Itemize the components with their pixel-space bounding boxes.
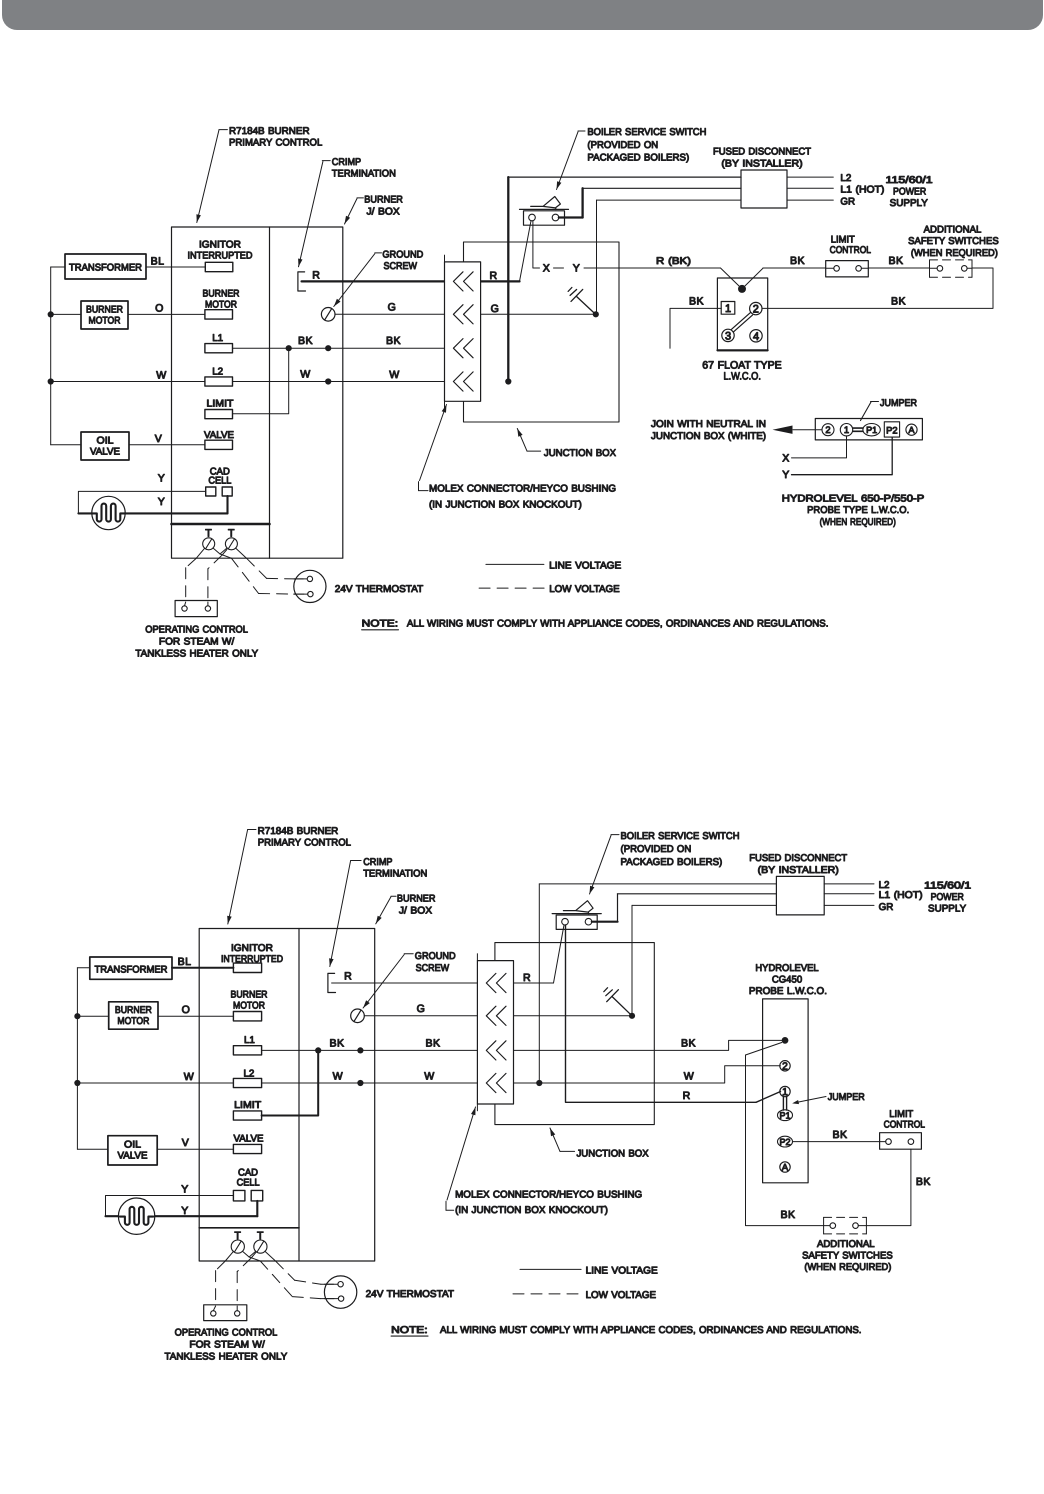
svg-text:L2: L2 [243, 1068, 254, 1079]
terminal CAD CELL (2) [233, 1168, 262, 1201]
terminal L1 (2) [233, 1035, 261, 1055]
label FUSED DISCONNECT (BY INSTALLER) (2) [749, 853, 847, 876]
ground symbol [568, 287, 596, 315]
svg-text:GR: GR [879, 902, 894, 913]
svg-text:Y: Y [782, 469, 789, 481]
svg-text:R: R [312, 269, 320, 281]
label JUNCTION BOX [517, 429, 616, 460]
svg-text:LOW VOLTAGE: LOW VOLTAGE [586, 1290, 657, 1301]
terminal IGNITOR INTERRUPTED [188, 239, 253, 271]
svg-text:P1: P1 [866, 425, 877, 435]
svg-text:CELL: CELL [208, 475, 232, 486]
crimp termination bracket [298, 272, 306, 291]
wire switch to R [520, 221, 532, 282]
svg-text:LIMIT: LIMIT [234, 1100, 261, 1111]
svg-text:X: X [782, 452, 789, 464]
svg-text:P2: P2 [779, 1137, 790, 1147]
wire BL transformer to ignitor (2) [172, 956, 233, 968]
svg-text:R: R [523, 972, 531, 984]
wire W rail to L2 (2) [77, 1071, 233, 1083]
svg-text:A: A [782, 1163, 789, 1174]
terminal L1 [205, 333, 233, 353]
svg-text:BURNER: BURNER [231, 990, 268, 1001]
svg-text:BURNER: BURNER [364, 195, 403, 206]
650-P terminal A [906, 424, 917, 435]
svg-text:CELL: CELL [237, 1177, 261, 1188]
svg-text:L.W.C.O.: L.W.C.O. [723, 371, 761, 383]
label BURNER J/ BOX [345, 195, 403, 225]
wires L2 L1 GR to 115/60/1 power supply [787, 173, 933, 209]
svg-text:(BY INSTALLER): (BY INSTALLER) [758, 865, 839, 876]
svg-text:MOLEX CONNECTOR/HEYCO BUSHING: MOLEX CONNECTOR/HEYCO BUSHING [429, 484, 616, 495]
svg-text:TERMINATION: TERMINATION [332, 169, 396, 180]
wire Y to 650-P terminal P2 [782, 437, 892, 481]
svg-text:BL: BL [178, 956, 192, 968]
label HYDROLEVEL CG450 PROBE L.W.C.O. [749, 963, 827, 997]
burner motor M1 [81, 301, 128, 329]
ground symbol (2) [604, 988, 632, 1016]
terminals T-T (2) [231, 1230, 267, 1253]
svg-text:A: A [908, 425, 914, 435]
svg-text:MOTOR: MOTOR [205, 299, 237, 310]
svg-text:O: O [155, 302, 164, 314]
svg-text:POWER: POWER [893, 187, 926, 198]
wire L1 hot switch to fused disconnect [559, 188, 741, 217]
oil valve V1 [81, 432, 129, 460]
junction box JB2 [495, 943, 654, 1125]
wire left rail with junctions (2) [74, 968, 90, 1149]
wire BK junction box to LWCO terminal 1 [670, 296, 721, 349]
wire W L2 to junction box [233, 369, 445, 385]
svg-text:X: X [543, 263, 550, 275]
svg-text:SUPPLY: SUPPLY [890, 198, 929, 209]
wire Y cad cell lower [78, 496, 227, 514]
LWCO terminal 2 [750, 302, 762, 315]
wire R crimp to service switch (line voltage) [302, 269, 520, 282]
ground screw GS1 [321, 308, 335, 322]
svg-text:L2: L2 [840, 173, 851, 184]
U1 thick terminal-strip line [172, 523, 270, 526]
terminal LIMIT [205, 399, 234, 419]
wire BK L1 to junction box (2) [262, 1037, 478, 1053]
hydrolevel 650-P terminal strip [815, 419, 922, 440]
svg-text:(IN JUNCTION BOX KNOCKOUT): (IN JUNCTION BOX KNOCKOUT) [429, 499, 582, 510]
svg-text:BK: BK [330, 1037, 345, 1049]
wire rail to oil valve (2) [77, 1148, 108, 1150]
svg-text:JUNCTION BOX (WHITE): JUNCTION BOX (WHITE) [651, 431, 766, 442]
terminal BURNER MOTOR [203, 288, 240, 319]
svg-text:CONTROL: CONTROL [830, 245, 872, 256]
LWCO float lever 3-2 [732, 313, 753, 332]
svg-text:J/ BOX: J/ BOX [399, 905, 433, 916]
CG450 terminal A [780, 1162, 790, 1174]
transformer TR2 [90, 957, 172, 979]
svg-text:IGNITOR: IGNITOR [231, 943, 273, 954]
wire to thermostat lower (2) [249, 1257, 334, 1299]
svg-text:INTERRUPTED: INTERRUPTED [188, 251, 253, 262]
wire to thermostat lower (low voltage) [231, 558, 304, 594]
label FUSED DISCONNECT (BY INSTALLER) [713, 146, 811, 169]
wire Y cad cell upper (2) [106, 1184, 234, 1217]
svg-text:67 FLOAT TYPE: 67 FLOAT TYPE [702, 359, 781, 371]
burner motor M2 [109, 1002, 158, 1029]
wire left rail with junctions [48, 267, 65, 445]
svg-text:ADDITIONAL: ADDITIONAL [817, 1239, 875, 1250]
wire L2 neutral white to fused disconnect [505, 177, 741, 385]
label LIMIT CONTROL (2) [884, 1109, 926, 1130]
label BURNER J/ BOX (2) [376, 894, 436, 924]
LWCO terminal 4 [750, 330, 762, 343]
svg-text:W: W [333, 1070, 343, 1082]
svg-text:FUSED DISCONNECT: FUSED DISCONNECT [749, 853, 847, 864]
svg-text:PACKAGED BOILERS): PACKAGED BOILERS) [621, 857, 723, 868]
thermostat TH1 24V [294, 570, 326, 602]
ground screw GS2 [351, 1009, 365, 1023]
svg-text:2: 2 [825, 424, 830, 435]
svg-text:JUMPER: JUMPER [880, 398, 917, 409]
svg-text:(WHEN REQUIRED): (WHEN REQUIRED) [911, 248, 998, 259]
wire R(BK) switch X-Y to LWCO and limit control [533, 221, 826, 293]
legend low voltage (2) [513, 1290, 657, 1301]
650-P terminal P1 [863, 424, 880, 436]
svg-text:1: 1 [844, 424, 849, 435]
label 24V THERMOSTAT [335, 584, 423, 595]
legend low voltage [479, 584, 620, 595]
svg-text:(PROVIDED ON: (PROVIDED ON [621, 844, 692, 855]
label BOILER SERVICE SWITCH [557, 127, 707, 190]
svg-text:HYDROLEVEL 650-P/550-P: HYDROLEVEL 650-P/550-P [782, 494, 925, 505]
svg-text:ADDITIONAL: ADDITIONAL [924, 225, 982, 236]
label CRIMP TERMINATION [298, 157, 396, 267]
wire Y cad cell upper [78, 472, 205, 513]
wire R crimp to service switch (2) [332, 971, 554, 984]
wire G ground screw to GR junction [335, 301, 599, 317]
svg-text:Y: Y [158, 496, 165, 508]
svg-text:W: W [156, 370, 166, 382]
svg-text:24V THERMOSTAT: 24V THERMOSTAT [366, 1289, 454, 1300]
boiler service switch SW1 [520, 197, 569, 226]
svg-text:CRIMP: CRIMP [332, 157, 362, 168]
wire T to thermostat upper (2) [265, 1251, 334, 1284]
svg-text:24V THERMOSTAT: 24V THERMOSTAT [335, 584, 423, 595]
svg-text:POWER: POWER [931, 892, 964, 903]
svg-text:MOTOR: MOTOR [233, 1001, 265, 1012]
svg-text:BK: BK [386, 335, 401, 347]
wire T2 to operating control (low voltage) [208, 550, 227, 606]
svg-text:GROUND: GROUND [382, 250, 423, 261]
wire BK limit to safety switches [868, 255, 929, 268]
wire GR fused disconnect to ground [597, 200, 742, 314]
svg-text:P1: P1 [779, 1111, 790, 1121]
svg-text:VALVE: VALVE [204, 430, 234, 441]
svg-text:BL: BL [151, 256, 165, 268]
svg-text:OIL: OIL [124, 1139, 142, 1150]
svg-text:PRIMARY CONTROL: PRIMARY CONTROL [229, 138, 323, 149]
svg-text:G: G [491, 303, 500, 315]
wire T to thermostat upper (low voltage) [236, 548, 303, 579]
wire L2 neutral to fused disconnect (2) [536, 884, 776, 1086]
svg-text:PROBE L.W.C.O.: PROBE L.W.C.O. [749, 986, 827, 997]
svg-text:FUSED DISCONNECT: FUSED DISCONNECT [713, 146, 811, 157]
operating control S2 [204, 1305, 247, 1321]
wire T1 to operating control (2) [213, 1251, 233, 1311]
svg-text:OIL: OIL [97, 435, 115, 446]
svg-text:BK: BK [681, 1038, 696, 1050]
label 67 FLOAT TYPE L.W.C.O. [702, 359, 781, 382]
label LIMIT CONTROL [830, 235, 872, 256]
svg-text:(IN JUNCTION BOX KNOCKOUT): (IN JUNCTION BOX KNOCKOUT) [455, 1205, 608, 1216]
wire BK junction box to CG450 dot [514, 1038, 782, 1051]
svg-text:BURNER: BURNER [86, 304, 123, 315]
svg-text:L1: L1 [244, 1035, 255, 1046]
svg-text:SUPPLY: SUPPLY [928, 903, 967, 914]
terminal LIMIT (2) [233, 1100, 261, 1120]
svg-text:R: R [344, 971, 352, 983]
svg-text:IGNITOR: IGNITOR [199, 239, 241, 250]
svg-text:TANKLESS HEATER ONLY: TANKLESS HEATER ONLY [135, 648, 258, 659]
wire R switch to CG450 terminal 1 [566, 925, 781, 1102]
svg-text:2: 2 [782, 1062, 788, 1073]
wire vee to thermostat lower start [220, 554, 231, 558]
terminal VALVE [204, 430, 234, 449]
wire rail to burner motor (2) [77, 1015, 108, 1017]
wire O burner motor to control [128, 302, 205, 314]
svg-text:GROUND: GROUND [415, 951, 456, 962]
U2 internal divider [298, 929, 300, 1262]
svg-text:G: G [388, 301, 397, 313]
svg-text:BK: BK [833, 1129, 848, 1141]
650-P terminal 1 [840, 424, 852, 436]
label R7184B BURNER PRIMARY CONTROL (2) [227, 826, 351, 924]
wire BK limit control to safety switches (2) [866, 1149, 930, 1225]
svg-text:OPERATING CONTROL: OPERATING CONTROL [145, 624, 248, 635]
label BK lwco to limit [790, 255, 805, 267]
label JUMPER [871, 398, 918, 409]
thermostat TH2 24V [324, 1276, 356, 1308]
svg-text:BURNER: BURNER [115, 1005, 152, 1016]
svg-text:SCREW: SCREW [384, 261, 418, 272]
terminals T-T [203, 528, 238, 550]
svg-text:BURNER: BURNER [203, 288, 240, 299]
svg-text:W: W [424, 1070, 434, 1082]
svg-text:P2: P2 [886, 424, 897, 435]
label GROUND SCREW [334, 250, 424, 307]
svg-text:BOILER SERVICE SWITCH: BOILER SERVICE SWITCH [587, 127, 706, 138]
svg-text:Y: Y [573, 263, 580, 275]
svg-text:FOR STEAM W/: FOR STEAM W/ [159, 636, 235, 647]
wire rail to oil valve [51, 444, 81, 446]
svg-text:Y: Y [181, 1184, 188, 1196]
svg-text:W: W [389, 369, 399, 381]
svg-text:115/60/1: 115/60/1 [924, 880, 971, 891]
label ADDITIONAL SAFETY SWITCHES (WHEN REQUIRED) [908, 225, 999, 259]
svg-text:R: R [489, 270, 497, 282]
svg-text:3: 3 [725, 330, 731, 342]
wire W rail to L2 [51, 370, 205, 382]
svg-text:R7184B BURNER: R7184B BURNER [258, 826, 339, 837]
svg-text:MOTOR: MOTOR [117, 1016, 149, 1027]
limit control LC1 [826, 261, 869, 277]
svg-text:4: 4 [753, 331, 759, 343]
wire rail to burner motor [51, 313, 81, 315]
bottom diagram: R7184B with Hydrolevel CG450 probe LWCO [74, 826, 971, 1362]
svg-text:JUNCTION BOX: JUNCTION BOX [577, 1149, 650, 1160]
crimp termination bracket (2) [328, 973, 336, 992]
svg-text:115/60/1: 115/60/1 [886, 175, 933, 186]
primary control U1 R7184B box outline [172, 227, 343, 558]
svg-text:SAFETY SWITCHES: SAFETY SWITCHES [908, 236, 999, 247]
svg-text:TANKLESS HEATER ONLY: TANKLESS HEATER ONLY [165, 1351, 288, 1362]
svg-text:LOW VOLTAGE: LOW VOLTAGE [549, 584, 620, 595]
label ADDITIONAL SAFETY SWITCHES (2) [802, 1239, 893, 1273]
svg-text:V: V [155, 433, 163, 445]
wire T-T jumper vee (2) [243, 1251, 256, 1257]
note all wiring must comply (2) [391, 1325, 861, 1336]
svg-text:1: 1 [725, 303, 731, 315]
label MOLEX CONNECTOR/HEYCO BUSHING [419, 405, 617, 511]
svg-text:J/ BOX: J/ BOX [367, 206, 401, 217]
page header bar [2, 0, 1043, 30]
svg-text:(WHEN REQUIRED): (WHEN REQUIRED) [804, 1262, 891, 1273]
CG450 top terminal dot [782, 1037, 789, 1044]
svg-text:BK: BK [781, 1209, 796, 1221]
svg-text:CRIMP: CRIMP [363, 857, 393, 868]
terminal BURNER MOTOR (2) [231, 990, 268, 1021]
svg-text:LIMIT: LIMIT [207, 399, 234, 410]
top diagram: R7184B with 67 float-type LWCO [48, 126, 1000, 659]
wire T1 to operating control (low voltage) [185, 548, 205, 606]
svg-text:R: R [683, 1090, 691, 1102]
wire BK L1 to junction box [233, 335, 445, 351]
svg-text:TERMINATION: TERMINATION [363, 869, 427, 880]
wires L2 L1 GR to power supply (2) [824, 880, 971, 915]
svg-text:BK: BK [790, 255, 805, 267]
svg-text:BK: BK [689, 296, 704, 308]
wire limit jumper (2) [262, 1050, 319, 1115]
67 float type LWCO box [717, 278, 767, 351]
svg-text:HYDROLEVEL: HYDROLEVEL [755, 963, 819, 974]
svg-text:VALVE: VALVE [90, 446, 120, 457]
jumper bar 1-P1 (2) [783, 1096, 786, 1110]
jumper leader line [861, 402, 872, 421]
wire W L2 to junction box (2) [262, 1070, 478, 1086]
svg-text:SAFETY SWITCHES: SAFETY SWITCHES [802, 1251, 893, 1262]
label R7184B BURNER PRIMARY CONTROL [196, 126, 322, 223]
svg-text:ALL WIRING MUST COMPLY WITH AP: ALL WIRING MUST COMPLY WITH APPLIANCE CO… [407, 619, 829, 630]
svg-text:BK: BK [891, 296, 906, 308]
terminal CAD CELL [206, 466, 233, 496]
LWCO terminal 3 [722, 329, 734, 342]
svg-text:INTERRUPTED: INTERRUPTED [221, 954, 283, 965]
650-P terminal P2 [884, 422, 899, 437]
wire L1 hot switch to fused disconnect (2) [592, 894, 777, 922]
wire BK CG450 dot to additional safety switches [746, 1043, 824, 1226]
transformer TR1 [65, 254, 146, 279]
wire Y cad cell lower (2) [106, 1201, 258, 1217]
cad cell flame sensor CC1 [92, 496, 125, 529]
svg-text:GR: GR [840, 197, 855, 208]
svg-text:PROBE TYPE L.W.C.O.: PROBE TYPE L.W.C.O. [807, 505, 909, 516]
fused disconnect FD2 [776, 876, 824, 915]
svg-text:BK: BK [298, 335, 313, 347]
wire O burner motor to control (2) [158, 1004, 233, 1016]
jumper bar 1-P1 [853, 428, 863, 431]
svg-text:(WHEN REQUIRED): (WHEN REQUIRED) [820, 517, 896, 528]
label CRIMP TERMINATION (2) [329, 857, 427, 967]
svg-text:BK: BK [916, 1176, 931, 1188]
legend line voltage [486, 560, 622, 571]
label JUNCTION BOX (2) [550, 1128, 649, 1160]
svg-text:L1 (HOT): L1 (HOT) [840, 185, 884, 196]
junction box JB1 [464, 242, 620, 422]
svg-text:TRANSFORMER: TRANSFORMER [69, 263, 142, 274]
svg-text:PRIMARY CONTROL: PRIMARY CONTROL [258, 838, 352, 849]
svg-text:NOTE:: NOTE: [362, 619, 399, 630]
CG450 terminal P2 [778, 1136, 793, 1147]
wire switch to R (2) [554, 925, 565, 983]
svg-text:TRANSFORMER: TRANSFORMER [95, 964, 168, 975]
svg-text:L1 (HOT): L1 (HOT) [879, 890, 923, 901]
label 24V THERMOSTAT (2) [366, 1289, 454, 1300]
label BOILER SERVICE SWITCH (2) [590, 831, 740, 894]
650-P terminal 2 [822, 424, 834, 436]
svg-text:VALVE: VALVE [234, 1134, 264, 1145]
terminal IGNITOR INTERRUPTED (2) [221, 943, 283, 973]
LWCO terminal 1 [721, 302, 735, 316]
wire T-T jumper vee [213, 548, 226, 554]
svg-text:(PROVIDED ON: (PROVIDED ON [587, 140, 658, 151]
additional safety switches SS2 (dashed) [824, 1217, 867, 1234]
CG450 terminal 2 [780, 1061, 790, 1073]
svg-text:Y: Y [181, 1205, 188, 1217]
U1 internal divider [269, 227, 271, 558]
svg-text:V: V [182, 1137, 190, 1149]
CG450 box [763, 999, 809, 1183]
wire V oil valve to control [129, 433, 205, 445]
legend line voltage (2) [520, 1265, 658, 1276]
svg-text:BURNER: BURNER [397, 894, 436, 905]
label JUMPER (2) [792, 1092, 865, 1104]
svg-text:CG450: CG450 [772, 975, 803, 986]
svg-text:MOTOR: MOTOR [89, 315, 121, 326]
svg-text:W: W [300, 369, 310, 381]
svg-text:W: W [684, 1070, 694, 1082]
wire V oil valve to control (2) [157, 1137, 233, 1149]
wire limit jumper [233, 348, 289, 414]
label OPERATING CONTROL FOR STEAM W/ TANKLESS HEATER ONLY [135, 624, 258, 659]
svg-text:W: W [184, 1071, 194, 1083]
svg-text:JOIN WITH NEUTRAL IN: JOIN WITH NEUTRAL IN [651, 419, 766, 430]
svg-text:ALL WIRING MUST COMPLY WITH AP: ALL WIRING MUST COMPLY WITH APPLIANCE CO… [440, 1325, 862, 1336]
boiler service switch SW2 [552, 901, 601, 930]
primary control U2 R7184B box outline [199, 929, 375, 1262]
wire BK safety switches to LWCO terminal 2 [762, 268, 993, 308]
svg-text:L2: L2 [212, 366, 223, 377]
svg-text:MOLEX CONNECTOR/HEYCO BUSHING: MOLEX CONNECTOR/HEYCO BUSHING [455, 1189, 642, 1200]
svg-text:FOR STEAM W/: FOR STEAM W/ [189, 1339, 265, 1350]
svg-text:R7184B BURNER: R7184B BURNER [229, 126, 310, 137]
svg-text:PACKAGED BOILERS): PACKAGED BOILERS) [587, 153, 689, 164]
svg-text:CONTROL: CONTROL [884, 1119, 926, 1130]
wire GR fused disconnect to ground (2) [632, 905, 776, 1015]
CG450 terminal 1 [780, 1086, 790, 1098]
note all wiring must comply [362, 619, 829, 630]
svg-text:BK: BK [889, 255, 904, 267]
label OPERATING CONTROL (2) [165, 1327, 288, 1362]
label HYDROLEVEL 650-P/550-P PROBE TYPE L.W.C.O. (WHEN REQUIRED) [782, 494, 925, 528]
svg-text:BOILER SERVICE SWITCH: BOILER SERVICE SWITCH [621, 831, 740, 842]
wire G ground screw to GR junction (2) [364, 1003, 635, 1019]
